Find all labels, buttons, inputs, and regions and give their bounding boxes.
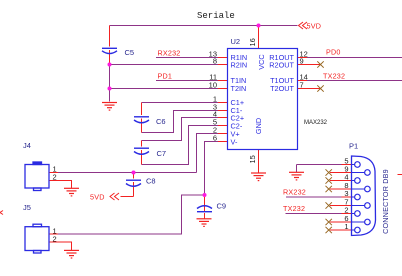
svg-text:9: 9 xyxy=(300,57,304,66)
svg-text:RX232: RX232 xyxy=(158,49,181,58)
svg-text:CONNECTOR DB9: CONNECTOR DB9 xyxy=(381,169,390,234)
svg-text:16: 16 xyxy=(248,38,257,46)
svg-text:P1: P1 xyxy=(349,142,358,151)
svg-text:2: 2 xyxy=(53,173,57,182)
svg-text:6: 6 xyxy=(213,134,217,143)
svg-text:T2OUT: T2OUT xyxy=(270,84,294,93)
svg-text:C8: C8 xyxy=(146,177,156,186)
svg-text:8: 8 xyxy=(213,57,217,66)
svg-text:1: 1 xyxy=(344,222,348,231)
svg-text:C6: C6 xyxy=(156,117,166,126)
svg-text:Seriale: Seriale xyxy=(197,11,235,21)
svg-text:T2IN: T2IN xyxy=(231,84,247,93)
svg-text:2: 2 xyxy=(53,235,57,244)
svg-text:RX232: RX232 xyxy=(283,188,306,197)
svg-text:5VD: 5VD xyxy=(90,193,105,202)
svg-text:R2OUT: R2OUT xyxy=(269,61,294,70)
svg-text:J5: J5 xyxy=(23,203,31,212)
svg-text:C9: C9 xyxy=(217,202,227,211)
svg-text:PD1: PD1 xyxy=(158,72,173,81)
svg-text:7: 7 xyxy=(300,81,304,90)
svg-text:VCC: VCC xyxy=(257,54,266,69)
svg-text:15: 15 xyxy=(248,155,257,163)
svg-text:C7: C7 xyxy=(157,149,167,158)
svg-text:5VD: 5VD xyxy=(307,22,322,31)
svg-text:10: 10 xyxy=(209,81,217,90)
svg-text:R2IN: R2IN xyxy=(231,61,248,70)
svg-text:U2: U2 xyxy=(231,37,241,46)
svg-text:J4: J4 xyxy=(23,141,31,150)
svg-text:PD0: PD0 xyxy=(326,48,341,57)
svg-text:MAX232: MAX232 xyxy=(304,120,328,126)
svg-text:C5: C5 xyxy=(125,48,135,57)
svg-text:TX232: TX232 xyxy=(323,72,345,81)
svg-text:GND: GND xyxy=(254,118,263,134)
svg-text:V-: V- xyxy=(231,138,238,147)
svg-text:TX232: TX232 xyxy=(283,204,305,213)
